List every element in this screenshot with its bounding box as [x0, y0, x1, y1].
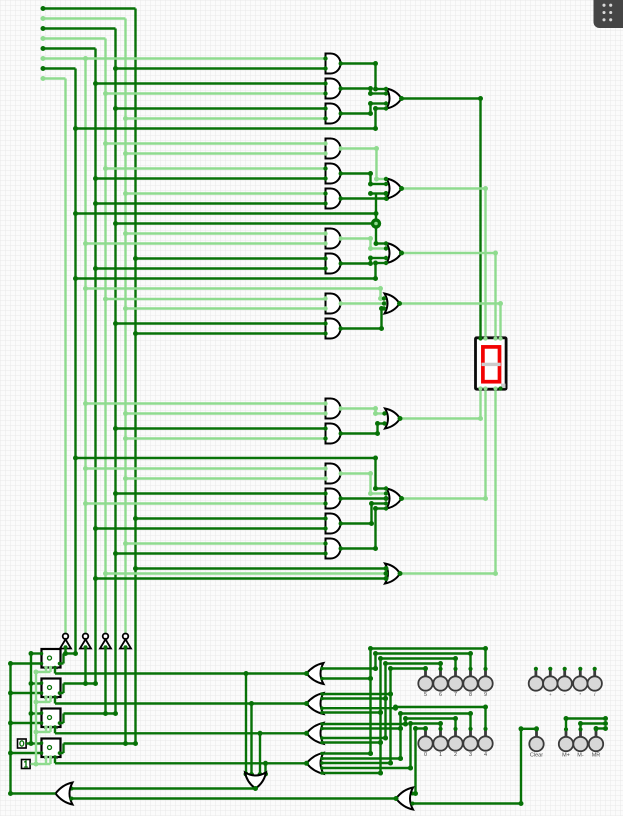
wire OR4 out to display pin d — [397, 301, 503, 338]
OR gate G4 (left-facing) — [307, 753, 324, 774]
constant 0 box — [18, 739, 27, 748]
wire U14 out to OR6 pin4 — [341, 501, 387, 526]
OR7 input pin dots — [384, 566, 389, 581]
wire G4 in1 — [320, 751, 373, 756]
wire row r26 — [83, 401, 326, 406]
OR gate G6 (left-facing, clock) — [56, 783, 73, 805]
svg-text:+: + — [549, 692, 552, 697]
OR gate G2 (left-facing) — [307, 693, 324, 714]
wire Clear to G7 — [411, 726, 540, 806]
svg-text:MR: MR — [592, 753, 601, 759]
wire G4 in2 — [320, 756, 403, 761]
wire OR3 out to display pin c — [399, 251, 498, 338]
wire input stub 2 — [41, 16, 126, 21]
wire button 4 channel — [320, 705, 488, 730]
wire row r25 — [133, 331, 326, 336]
wire row r1 — [41, 56, 326, 61]
push button 2 — [448, 727, 462, 758]
flip-flop cell FF3 — [40, 709, 62, 729]
wire row r27 — [123, 411, 326, 416]
wire row r15 into node N1 — [113, 221, 372, 226]
wire row r10 — [103, 166, 326, 171]
OR gate OR2 — [384, 177, 402, 201]
svg-text:*: * — [579, 692, 581, 697]
OR gate OR6 — [384, 486, 402, 510]
wire U6 out to OR3 pin2 — [341, 236, 387, 251]
wire U15 out to OR6 pin5 — [341, 506, 388, 551]
wire row r37 — [93, 526, 326, 531]
push button / — [588, 667, 602, 697]
wire G3 in3 — [320, 736, 388, 741]
AND gate U9 — [323, 319, 343, 339]
wire U4 out to OR2 pin1 — [341, 146, 388, 182]
OR gate OR1 — [384, 87, 402, 111]
push button 7 — [448, 667, 462, 698]
wire row r20 to OR3 pin4 — [73, 261, 387, 282]
AND gate U12 — [323, 464, 343, 484]
NOT gate N4 — [120, 634, 131, 650]
svg-text:M+: M+ — [562, 753, 570, 759]
wire row r33 — [113, 491, 326, 496]
wire row r28 — [113, 426, 326, 431]
wire FF1 Q out — [61, 651, 79, 664]
wire button 3 channel — [398, 711, 473, 761]
wire row r14 to node N1 and OR2 pin3 — [73, 194, 379, 221]
push button 1 — [433, 727, 447, 758]
wire button 0 channel — [411, 726, 429, 796]
wire row r16 — [123, 231, 326, 236]
svg-text:Clear: Clear — [530, 753, 543, 759]
NOT gate N2 — [80, 634, 91, 650]
wire input stub 3 — [41, 26, 116, 31]
wire row r31 — [83, 466, 326, 471]
wire row r13 — [93, 201, 326, 206]
wire G2 in2 — [320, 696, 388, 701]
wire FF3 Q out — [61, 711, 119, 723]
wire row r24 — [113, 321, 326, 326]
wire G3 in2 — [320, 726, 403, 731]
wire OR1 out to display pin a — [399, 96, 483, 338]
wire row r22 — [103, 297, 326, 302]
flip-flop cell FF1 — [40, 649, 62, 669]
wire U8 out to OR4 pin2 — [341, 301, 389, 306]
wire row r7 to OR1 pin4 — [73, 106, 387, 131]
AND gate U5 — [323, 164, 343, 184]
wire button 8 channel — [373, 651, 473, 671]
NOT gate N1 — [60, 634, 71, 650]
AND gate U10 — [323, 399, 343, 419]
push button - — [558, 667, 572, 697]
push button MR — [589, 727, 603, 758]
svg-text:6: 6 — [439, 692, 442, 698]
wire NOT N3 input — [103, 649, 108, 717]
wire OR5 out to display pin e — [398, 389, 484, 421]
wire G4 in4 — [320, 766, 413, 771]
wire row r40 — [133, 566, 386, 571]
OR gate OR4 — [382, 294, 400, 314]
wire button 7 channel — [378, 656, 458, 776]
push button 3 — [463, 727, 477, 758]
wire G4 in5 — [320, 771, 383, 776]
wire G3 in1 — [320, 722, 408, 727]
AND gate U14 — [323, 514, 343, 534]
wire OR2 out to display pin b — [399, 186, 488, 338]
wire bus Q4 (dark) — [134, 9, 136, 744]
wire row r2 — [113, 66, 326, 71]
wire OR6 out to display pin f — [399, 389, 488, 501]
wire NOT N4 input — [123, 649, 128, 747]
wire M- stub — [578, 721, 608, 730]
wire row r6 — [123, 116, 326, 121]
wire bus Q3 (dark) — [114, 29, 116, 714]
push button + — [543, 667, 557, 697]
wire FF4 Q out — [61, 741, 139, 753]
OR gate OR3 — [384, 241, 402, 265]
push button . — [529, 667, 543, 697]
wire G3 out — [55, 727, 309, 777]
OR gate G5 (down-facing) — [245, 773, 266, 789]
wire row r41 — [103, 571, 386, 576]
wire bus Q2 (dark) — [94, 49, 96, 684]
svg-text:.: . — [535, 692, 536, 697]
seven-segment display DS1 — [476, 336, 507, 390]
wire G4 out — [55, 757, 309, 777]
wire M+ stub — [564, 716, 609, 730]
wire node N1 to OR3 pin1 — [374, 227, 388, 246]
wire G6 output to clock rail — [11, 792, 56, 794]
AND gate U11 — [323, 424, 343, 444]
wire row r17 — [83, 241, 326, 246]
wire FF2 Q out — [61, 681, 99, 693]
wire bus Q1 (dark) — [74, 69, 76, 654]
AND gate U1 — [323, 54, 343, 74]
wire G3 in4 — [320, 740, 383, 745]
wire button 6 channel — [383, 661, 443, 741]
svg-text:2: 2 — [454, 752, 457, 758]
wire G7 output — [70, 796, 399, 801]
wire reset rail — [26, 651, 42, 746]
push button * — [573, 667, 587, 697]
wire U3 out to OR1 pin3 — [341, 101, 387, 116]
wire G1 in2 — [320, 676, 373, 681]
wire G2 in4 — [320, 710, 383, 715]
wire G5 output — [70, 786, 259, 791]
svg-text:3: 3 — [469, 752, 472, 758]
wire input stub 5 — [41, 46, 96, 51]
wire input stub 1 — [41, 6, 136, 11]
OR gate OR5 — [382, 409, 400, 429]
OR gate G1 (left-facing) — [307, 663, 324, 684]
NOT gate N3 — [100, 634, 111, 650]
wire G1 in1 — [320, 666, 378, 671]
svg-text:M-: M- — [577, 753, 584, 759]
push button 9 — [478, 667, 492, 698]
wire button 5 channel — [388, 666, 428, 766]
push button 6 — [433, 667, 447, 698]
wire U5 out to OR2 pin2 — [341, 171, 387, 187]
wire bus nQ3 (light) — [104, 39, 106, 636]
svg-text:8: 8 — [469, 692, 472, 698]
wire G1 out — [55, 668, 309, 777]
AND gate U3 — [323, 104, 343, 124]
wire row r32 — [123, 476, 326, 481]
svg-text:7: 7 — [454, 692, 457, 698]
wire row r35 — [133, 516, 326, 521]
AND gate U15 — [323, 539, 343, 559]
push button 5 — [418, 667, 432, 698]
push button Clear — [529, 727, 543, 758]
wire U12 out to OR6 pin2 — [341, 471, 387, 496]
flip-flop cell FF4 — [40, 739, 62, 759]
wire G2 in1 — [320, 692, 393, 697]
wire row r39 — [113, 551, 326, 556]
svg-text:0: 0 — [424, 752, 427, 758]
node N1 junction — [371, 218, 381, 228]
wire row r30 to OR6 pin1 — [73, 456, 387, 492]
wire row r34 — [83, 501, 326, 506]
AND gate U6 — [323, 229, 343, 249]
push button 0 — [418, 727, 432, 758]
wire row r12 — [123, 191, 326, 196]
OR gate OR7 — [385, 564, 400, 584]
push button 4 — [478, 727, 492, 758]
wire U7 out to OR3 pin3 — [341, 256, 387, 267]
wire row r42 — [93, 576, 386, 581]
wire U9 out to OR4 pin3 — [341, 306, 387, 331]
OR gate G3 (left-facing) — [307, 723, 324, 744]
wire T rail — [31, 668, 51, 767]
wire U13 out to OR6 pin3 — [341, 496, 389, 501]
wire bus nQ1 (light) — [64, 79, 66, 636]
svg-text:9: 9 — [484, 692, 487, 698]
wire G4 in3 — [320, 761, 393, 766]
OR gate G7 (left-facing, bottom right) — [396, 788, 413, 810]
wire MR stub — [594, 726, 609, 731]
menu icon — [594, 0, 623, 28]
AND gate U16 — [323, 189, 343, 209]
wire row r18 — [133, 256, 326, 261]
wire row r3 — [93, 81, 326, 86]
AND gate U2 — [323, 79, 343, 99]
wire U16 out to OR2 pin4 — [341, 196, 390, 201]
wire U10 out to OR5 pin1 — [341, 406, 386, 416]
AND gate U4 — [323, 139, 343, 159]
wire G2 out — [55, 697, 309, 777]
AND gate U13 — [323, 489, 343, 509]
wire OR7 out to display pin g — [398, 389, 499, 576]
wire OR2 pin3 lead — [368, 191, 389, 196]
svg-text:5: 5 — [424, 692, 427, 698]
wire row r19 — [93, 266, 326, 271]
wire button 1 channel — [408, 721, 443, 771]
wire row r23 — [123, 306, 326, 311]
wire input stub 4 — [41, 36, 106, 41]
svg-text:1: 1 — [439, 752, 442, 758]
AND gate U8 — [323, 294, 343, 314]
wire bus nQ4 (light) — [124, 19, 126, 636]
wire row r11 — [93, 176, 326, 181]
wire row r4 — [103, 91, 326, 96]
flip-flop cell FF2 — [40, 679, 62, 699]
wire row r21 to OR4 pin1 — [83, 286, 386, 301]
push button 8 — [463, 667, 477, 698]
svg-text:4: 4 — [484, 752, 487, 758]
push button M- — [573, 727, 587, 758]
wire NOT N2 input — [83, 649, 88, 687]
wire row r5 — [113, 106, 326, 111]
wire row r29 — [123, 436, 326, 441]
wire input stub 7 — [41, 76, 66, 81]
wire bus nQ2 (light) — [84, 59, 86, 636]
wire U1 out to OR1 pin1 — [341, 61, 388, 92]
wire U2 out to OR1 pin2 — [341, 86, 387, 96]
wire U11 out to OR5 pin2 — [341, 421, 386, 436]
wire row r8 — [103, 141, 326, 146]
wire button 9 channel — [368, 646, 488, 756]
constant 1 box — [22, 760, 31, 769]
wire button 2 channel — [403, 716, 458, 729]
wire clock rail — [8, 661, 42, 796]
wire row r9 — [123, 151, 326, 156]
wire NOT N1 input — [63, 649, 68, 657]
AND gate U7 — [323, 254, 343, 274]
wire row r38 — [123, 541, 326, 546]
push button M+ — [559, 727, 573, 758]
wire input stub 6 — [41, 66, 76, 71]
